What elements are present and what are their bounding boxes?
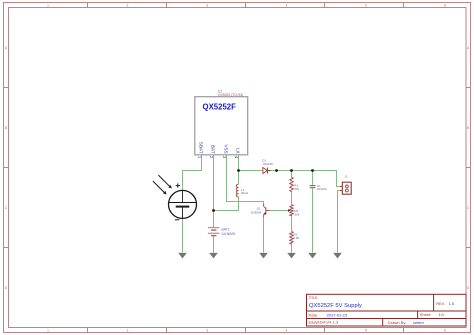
svg-text:SBAT: SBAT — [199, 142, 204, 154]
svg-text:50k: 50k — [294, 187, 299, 191]
svg-text:1: 1 — [47, 4, 49, 8]
svg-text:B: B — [467, 126, 469, 130]
svg-text:1.0: 1.0 — [449, 301, 455, 306]
svg-text:B: B — [5, 126, 7, 130]
svg-text:1000uF: 1000uF — [317, 187, 327, 191]
svg-text:BAT: BAT — [211, 145, 216, 154]
svg-text:celem: celem — [413, 320, 424, 325]
svg-text:A: A — [467, 46, 470, 50]
svg-text:4: 4 — [233, 156, 239, 159]
svg-text:3: 3 — [221, 156, 227, 159]
svg-text:3: 3 — [206, 329, 208, 333]
svg-text:4: 4 — [286, 4, 288, 8]
svg-text:1: 1 — [47, 329, 49, 333]
svg-text:2: 2 — [127, 4, 129, 8]
svg-text:1/1: 1/1 — [439, 312, 445, 317]
svg-text:Sheet:: Sheet: — [420, 312, 432, 317]
svg-text:REV.: REV. — [436, 301, 445, 306]
svg-text:3: 3 — [206, 4, 208, 8]
svg-text:D: D — [467, 286, 470, 290]
svg-text:2: 2 — [127, 329, 129, 333]
svg-text:QX5252F: QX5252F — [203, 102, 237, 111]
svg-text:10k: 10k — [295, 213, 300, 217]
svg-text:A: A — [5, 46, 8, 50]
svg-text:5: 5 — [365, 4, 367, 8]
svg-text:VSS: VSS — [224, 144, 229, 153]
svg-text:LX: LX — [236, 148, 241, 154]
svg-text:Date:: Date: — [309, 313, 319, 318]
svg-text:33uH: 33uH — [241, 191, 248, 195]
svg-text:6: 6 — [444, 4, 446, 8]
svg-text:QX5252F 5V Supply: QX5252F 5V Supply — [309, 303, 362, 309]
svg-text:4: 4 — [286, 329, 288, 333]
svg-text:TITLE:: TITLE: — [309, 296, 319, 300]
svg-text:2N3904: 2N3904 — [251, 210, 262, 214]
svg-text:QX5252 (TO-94): QX5252 (TO-94) — [218, 93, 243, 97]
svg-text:AA NiMH: AA NiMH — [222, 232, 236, 236]
svg-text:2017-01-23: 2017-01-23 — [327, 313, 348, 318]
svg-text:J1: J1 — [345, 174, 349, 178]
svg-text:6: 6 — [444, 329, 446, 333]
svg-text:D: D — [5, 286, 8, 290]
svg-text:Drawn By:: Drawn By: — [388, 320, 406, 325]
svg-text:EasyEDA V4.1.3: EasyEDA V4.1.3 — [309, 320, 339, 325]
svg-text:6.8k: 6.8k — [294, 236, 300, 240]
svg-text:C: C — [5, 206, 8, 210]
svg-text:1N4148: 1N4148 — [262, 162, 273, 166]
svg-text:5: 5 — [365, 329, 367, 333]
svg-text:1: 1 — [196, 156, 202, 159]
svg-text:C: C — [467, 206, 470, 210]
svg-text:2: 2 — [208, 156, 214, 159]
svg-text:BAT1: BAT1 — [222, 227, 230, 231]
